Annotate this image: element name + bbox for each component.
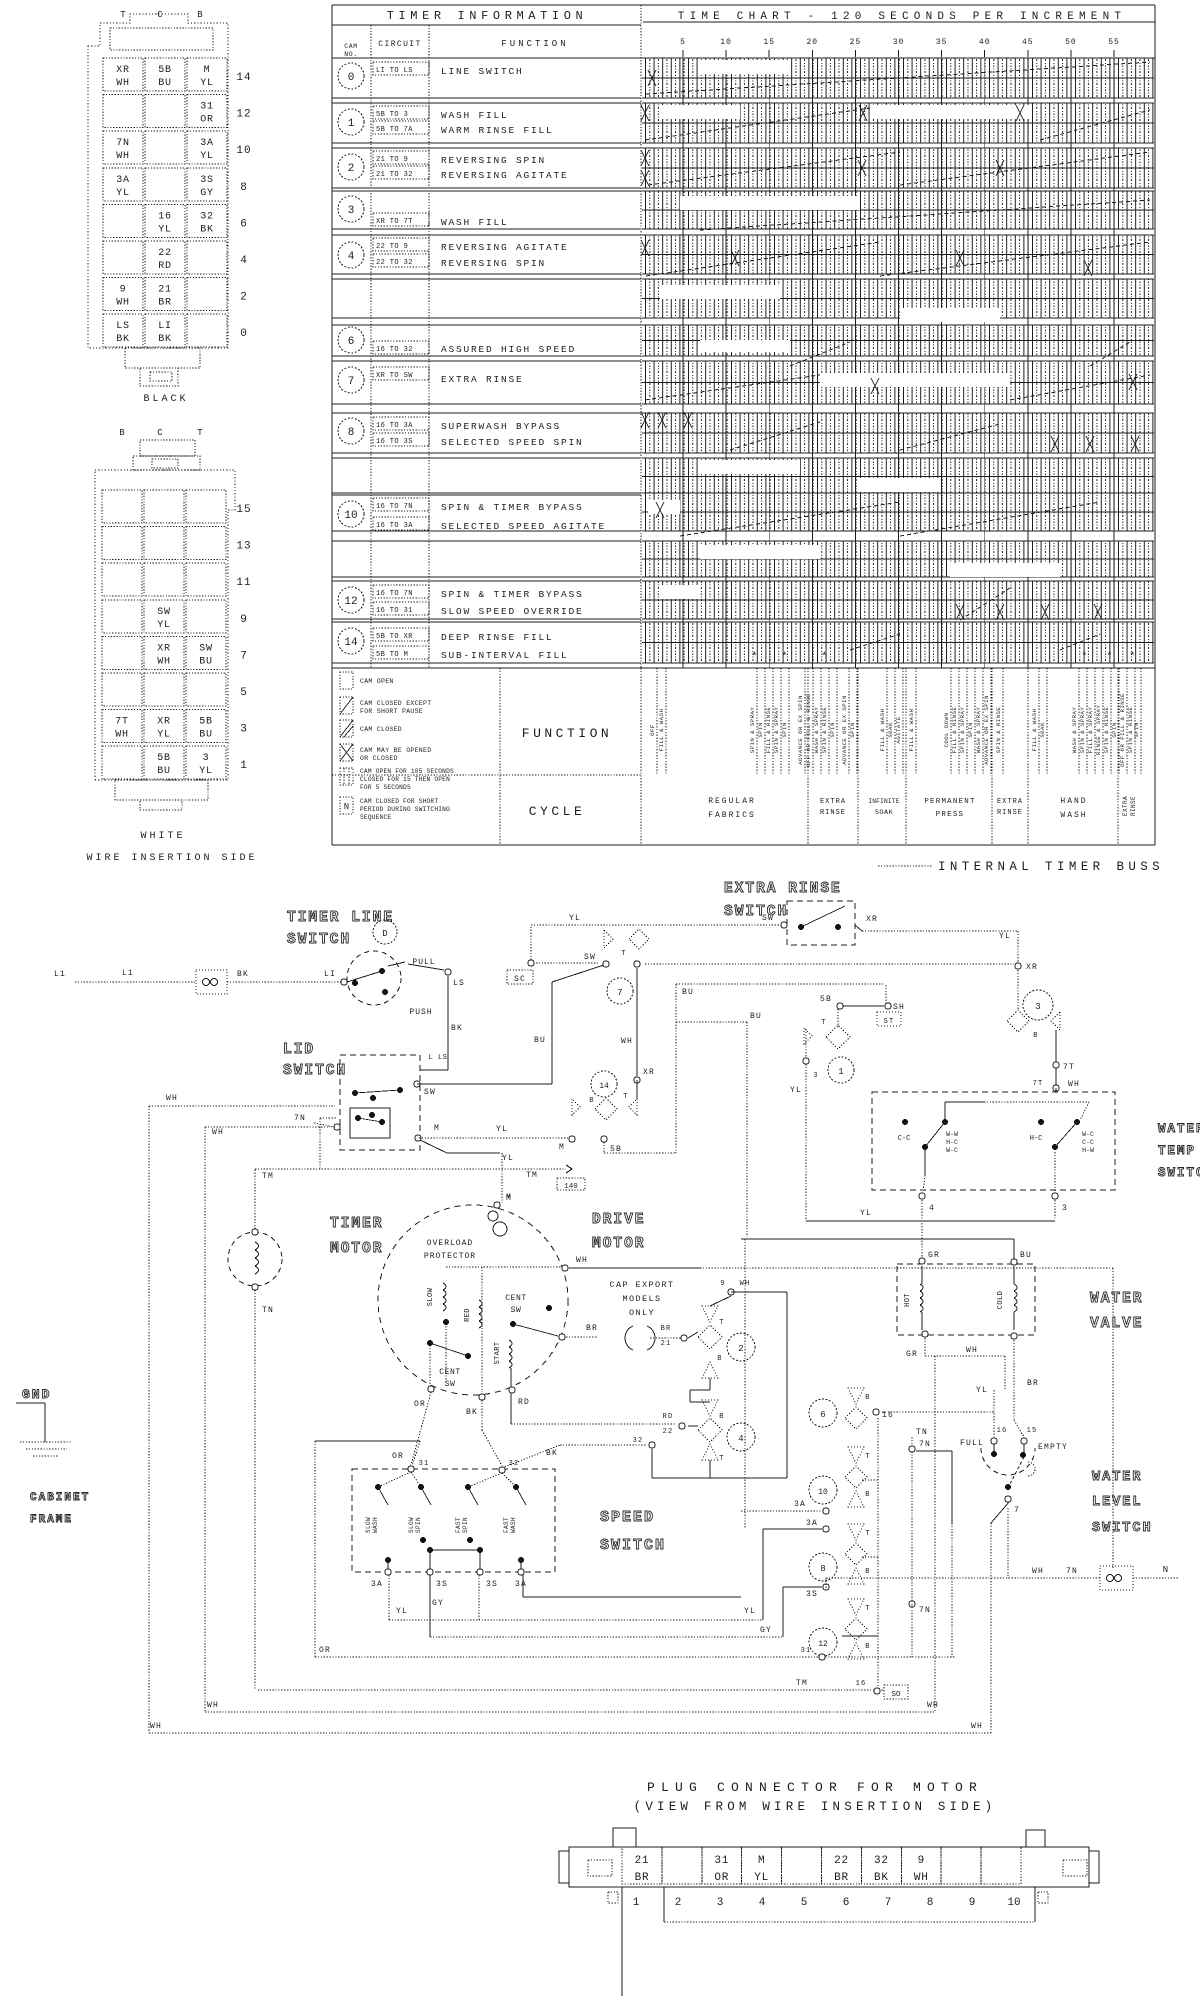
svg-text:FILL & WASH: FILL & WASH — [658, 709, 665, 752]
svg-text:T: T — [197, 428, 203, 438]
svg-text:XR TO 7T: XR TO 7T — [376, 218, 413, 226]
svg-text:SPIN & TIMER BYPASS: SPIN & TIMER BYPASS — [441, 589, 584, 600]
svg-text:BU: BU — [199, 730, 213, 741]
svg-text:M: M — [506, 1194, 512, 1203]
svg-text:W-C: W-C — [1082, 1131, 1094, 1138]
svg-text:140: 140 — [564, 1183, 578, 1191]
svg-text:15: 15 — [236, 504, 251, 516]
svg-text:T: T — [621, 950, 626, 958]
svg-text:6: 6 — [820, 1410, 825, 1420]
svg-text:GY: GY — [432, 1599, 444, 1608]
svg-text:31: 31 — [714, 1855, 729, 1867]
svg-text:25: 25 — [850, 38, 862, 47]
svg-text:3A: 3A — [806, 1519, 818, 1528]
svg-text:7: 7 — [348, 376, 355, 388]
svg-text:1: 1 — [240, 760, 248, 772]
svg-text:5B TO 3: 5B TO 3 — [376, 111, 408, 119]
svg-text:22 TO 9: 22 TO 9 — [376, 243, 408, 251]
svg-text:OVERLOAD: OVERLOAD — [427, 1239, 473, 1248]
svg-text:RED: RED — [464, 1308, 472, 1322]
svg-text:5B: 5B — [199, 717, 213, 728]
svg-text:SWITCH: SWITCH — [1092, 1521, 1153, 1536]
svg-text:D: D — [382, 929, 387, 939]
svg-text:SW: SW — [157, 607, 171, 618]
svg-text:16: 16 — [882, 1411, 894, 1420]
svg-text:CAM CLOSED EXCEPT: CAM CLOSED EXCEPT — [360, 700, 431, 707]
svg-text:TIMER INFORMATION: TIMER INFORMATION — [387, 9, 588, 23]
svg-text:7N: 7N — [1066, 1567, 1078, 1576]
svg-text:B: B — [865, 1643, 870, 1651]
svg-text:SPIN: SPIN — [462, 1517, 469, 1533]
svg-text:SPIN & RINSE: SPIN & RINSE — [821, 707, 828, 754]
svg-text:WASH FILL: WASH FILL — [441, 217, 509, 228]
svg-text:SPIN & SPRAY: SPIN & SPRAY — [749, 707, 756, 754]
svg-text:PERMANENT: PERMANENT — [924, 798, 975, 806]
svg-text:RINSE: RINSE — [820, 809, 846, 817]
svg-text:PRESS: PRESS — [936, 811, 965, 819]
svg-text:B: B — [1033, 1032, 1038, 1040]
svg-text:OFF OR FILL & RINSE: OFF OR FILL & RINSE — [1119, 693, 1126, 767]
svg-text:5B TO M: 5B TO M — [376, 651, 408, 659]
svg-text:31: 31 — [200, 102, 214, 113]
svg-text:GR: GR — [928, 1251, 940, 1260]
svg-text:SOAK: SOAK — [875, 809, 894, 817]
svg-text:FAST: FAST — [455, 1517, 462, 1533]
svg-text:6: 6 — [240, 218, 248, 230]
svg-text:BU: BU — [682, 988, 694, 997]
svg-text:14: 14 — [236, 72, 251, 84]
svg-text:5B TO 7A: 5B TO 7A — [376, 126, 413, 134]
svg-text:10: 10 — [344, 510, 357, 522]
svg-text:EXTRA RINSE: EXTRA RINSE — [724, 881, 842, 897]
svg-text:XR: XR — [157, 717, 171, 728]
svg-text:16 TO 7N: 16 TO 7N — [376, 590, 413, 598]
svg-text:8: 8 — [820, 1564, 825, 1574]
svg-text:T: T — [821, 1019, 826, 1027]
svg-text:16 TO 3A: 16 TO 3A — [376, 422, 413, 430]
svg-text:WH: WH — [740, 1280, 751, 1288]
svg-text:YL: YL — [790, 1086, 802, 1095]
svg-text:16 TO 31: 16 TO 31 — [376, 607, 413, 615]
svg-text:3A: 3A — [116, 175, 130, 186]
svg-text:5: 5 — [240, 687, 248, 699]
svg-text:SLOW SPEED OVERRIDE: SLOW SPEED OVERRIDE — [441, 606, 584, 617]
svg-text:SELECTED SPEED SPIN: SELECTED SPEED SPIN — [441, 437, 584, 448]
svg-text:B: B — [719, 1413, 724, 1421]
svg-text:TM: TM — [262, 1172, 274, 1181]
svg-text:YL: YL — [116, 188, 130, 199]
svg-text:WASH FILL: WASH FILL — [441, 110, 509, 121]
svg-text:CAM OPEN: CAM OPEN — [360, 678, 394, 685]
svg-text:WIRE INSERTION SIDE: WIRE INSERTION SIDE — [86, 853, 257, 864]
svg-text:3S: 3S — [200, 175, 214, 186]
svg-text:7: 7 — [1014, 1506, 1020, 1515]
svg-text:YL: YL — [157, 730, 171, 741]
svg-text:30: 30 — [893, 38, 905, 47]
svg-text:40: 40 — [979, 38, 991, 47]
svg-text:CENT: CENT — [505, 1294, 527, 1303]
svg-text:T: T — [865, 1605, 870, 1613]
svg-text:2: 2 — [240, 292, 248, 304]
svg-text:0: 0 — [240, 328, 248, 340]
svg-text:21 TO 9: 21 TO 9 — [376, 156, 408, 164]
svg-text:45: 45 — [1022, 38, 1034, 47]
svg-text:(VIEW FROM WIRE INSERTION SIDE: (VIEW FROM WIRE INSERTION SIDE) — [634, 1800, 997, 1814]
svg-text:SOAK: SOAK — [887, 722, 894, 738]
svg-text:SLOW: SLOW — [427, 1287, 435, 1306]
svg-text:BU: BU — [199, 656, 213, 667]
svg-text:SPIN: SPIN — [967, 722, 974, 738]
svg-text:SW: SW — [424, 1088, 436, 1097]
svg-text:SOAK: SOAK — [1039, 722, 1046, 738]
svg-text:REGULAR: REGULAR — [708, 797, 756, 806]
svg-text:7N: 7N — [919, 1440, 931, 1449]
svg-text:RINSE: RINSE — [1130, 796, 1137, 816]
svg-text:WH: WH — [207, 1701, 219, 1710]
svg-text:BK: BK — [116, 334, 130, 345]
svg-text:WH: WH — [116, 298, 130, 309]
svg-text:TM: TM — [526, 1171, 538, 1180]
svg-text:SPIN & RINSE: SPIN & RINSE — [1103, 707, 1110, 754]
svg-text:3S: 3S — [436, 1580, 448, 1589]
svg-text:B: B — [865, 1568, 870, 1576]
svg-text:CAM: CAM — [344, 43, 358, 50]
svg-text:YL: YL — [744, 1607, 756, 1616]
svg-text:LI: LI — [324, 970, 336, 979]
svg-text:EXTRA RINSE: EXTRA RINSE — [441, 374, 524, 385]
svg-text:PROTECTOR: PROTECTOR — [424, 1252, 476, 1261]
svg-text:SPIN: SPIN — [849, 722, 856, 738]
svg-text:4: 4 — [929, 1204, 935, 1213]
svg-text:WASH & SPRAY: WASH & SPRAY — [1071, 707, 1078, 754]
svg-text:YL: YL — [754, 1872, 769, 1884]
svg-text:YL: YL — [200, 78, 214, 89]
svg-text:LEVEL: LEVEL — [1092, 1495, 1143, 1510]
svg-text:21: 21 — [635, 1855, 650, 1867]
svg-text:SW: SW — [199, 643, 213, 654]
svg-text:FOR SHORT PAUSE: FOR SHORT PAUSE — [360, 708, 423, 715]
svg-text:SPEED: SPEED — [600, 1509, 655, 1526]
svg-text:SPIN: SPIN — [1133, 722, 1140, 738]
svg-text:T: T — [865, 1453, 870, 1461]
svg-text:FRAME: FRAME — [30, 1514, 73, 1526]
svg-text:21 TO 32: 21 TO 32 — [376, 171, 413, 179]
svg-text:SPIN & RINSE: SPIN & RINSE — [995, 707, 1002, 754]
svg-text:T: T — [865, 1530, 870, 1538]
svg-text:YL: YL — [999, 932, 1011, 941]
svg-text:GND: GND — [22, 1387, 51, 1402]
svg-text:SW: SW — [511, 1306, 522, 1315]
svg-text:BU: BU — [534, 1036, 546, 1045]
svg-text:5B: 5B — [157, 753, 171, 764]
svg-text:SLOW: SLOW — [408, 1517, 415, 1533]
svg-text:INTERNAL TIMER BUSS: INTERNAL TIMER BUSS — [938, 860, 1164, 874]
svg-text:T: T — [719, 1455, 724, 1463]
svg-text:9: 9 — [720, 1280, 725, 1288]
svg-text:*: * — [751, 651, 758, 663]
svg-text:SWITCH: SWITCH — [287, 932, 351, 948]
svg-text:3: 3 — [348, 205, 355, 217]
svg-text:3: 3 — [1062, 1204, 1068, 1213]
svg-text:BK: BK — [874, 1872, 889, 1884]
svg-text:COLD: COLD — [997, 1291, 1005, 1309]
svg-text:7N: 7N — [294, 1114, 306, 1123]
svg-text:22: 22 — [158, 248, 172, 259]
svg-text:SPIN & SPRAY: SPIN & SPRAY — [1079, 707, 1086, 754]
svg-text:WHITE: WHITE — [140, 831, 185, 842]
svg-text:COOL DOWN: COOL DOWN — [943, 712, 950, 747]
svg-text:10: 10 — [1007, 1897, 1020, 1909]
svg-text:TIMER: TIMER — [330, 1216, 384, 1232]
svg-text:WASH: WASH — [372, 1517, 379, 1533]
svg-text:LS: LS — [453, 979, 465, 988]
svg-text:9: 9 — [120, 285, 127, 296]
svg-text:HOT: HOT — [904, 1293, 912, 1307]
svg-text:FOR 5 SECONDS: FOR 5 SECONDS — [360, 784, 411, 791]
svg-text:YL: YL — [496, 1125, 508, 1134]
svg-text:7N: 7N — [116, 138, 130, 149]
svg-text:ASSURED HIGH SPEED: ASSURED HIGH SPEED — [441, 344, 576, 355]
svg-text:OR: OR — [392, 1452, 404, 1461]
svg-text:BLACK: BLACK — [143, 394, 188, 405]
svg-text:TM: TM — [796, 1679, 808, 1688]
svg-text:YL: YL — [502, 1154, 514, 1163]
svg-text:32: 32 — [874, 1855, 889, 1867]
svg-text:H-C: H-C — [946, 1139, 958, 1146]
svg-text:OR: OR — [714, 1872, 729, 1884]
svg-text:OFF OR FILL & RINSE: OFF OR FILL & RINSE — [805, 693, 812, 767]
svg-text:BR: BR — [158, 298, 172, 309]
svg-text:B: B — [865, 1394, 870, 1402]
svg-text:5B: 5B — [158, 65, 172, 76]
svg-text:EXTRA: EXTRA — [1122, 796, 1129, 816]
svg-text:TN: TN — [262, 1306, 274, 1315]
svg-text:WASH & SPRAY: WASH & SPRAY — [813, 707, 820, 754]
svg-text:ONLY: ONLY — [629, 1308, 655, 1318]
svg-text:SUB-INTERVAL FILL: SUB-INTERVAL FILL — [441, 650, 569, 661]
svg-text:BR: BR — [661, 1325, 672, 1333]
svg-text:WH: WH — [1032, 1567, 1044, 1576]
svg-text:CAM MAY BE OPENED: CAM MAY BE OPENED — [360, 747, 431, 754]
svg-text:6: 6 — [348, 336, 355, 348]
svg-text:WASH & SPRAY: WASH & SPRAY — [975, 707, 982, 754]
svg-text:55: 55 — [1108, 38, 1120, 47]
svg-text:ADVANCE OR EX SPIN: ADVANCE OR EX SPIN — [983, 695, 990, 765]
svg-text:MOTOR: MOTOR — [330, 1241, 384, 1257]
svg-text:FILL & SPRAY: FILL & SPRAY — [1087, 707, 1094, 754]
svg-text:3: 3 — [240, 724, 248, 736]
svg-text:FILL & RINSE: FILL & RINSE — [951, 707, 958, 754]
svg-text:7T: 7T — [1063, 1063, 1075, 1072]
svg-text:SPIN: SPIN — [829, 722, 836, 738]
svg-text:8: 8 — [927, 1897, 934, 1909]
svg-text:MODELS: MODELS — [622, 1294, 661, 1304]
svg-text:YL: YL — [396, 1607, 408, 1616]
svg-text:SUPERWASH BYPASS: SUPERWASH BYPASS — [441, 421, 561, 432]
svg-text:BK: BK — [158, 334, 172, 345]
svg-text:FUNCTION: FUNCTION — [522, 726, 612, 741]
svg-text:INFINITE: INFINITE — [868, 798, 899, 805]
svg-text:BK: BK — [466, 1408, 478, 1417]
svg-text:WH: WH — [157, 656, 171, 667]
svg-text:BK: BK — [237, 970, 249, 979]
svg-text:PUSH: PUSH — [409, 1008, 432, 1017]
svg-text:WASH: WASH — [510, 1517, 517, 1533]
svg-text:10: 10 — [720, 38, 732, 47]
svg-text:AGITATE: AGITATE — [895, 716, 902, 743]
svg-text:10: 10 — [236, 145, 251, 157]
svg-text:SH: SH — [893, 1003, 905, 1012]
svg-text:31: 31 — [419, 1460, 430, 1468]
svg-text:PERIOD DURING SWITCHING: PERIOD DURING SWITCHING — [360, 806, 450, 813]
svg-text:BK: BK — [546, 1449, 558, 1458]
svg-text:FABRICS: FABRICS — [708, 811, 756, 820]
svg-text:B: B — [119, 428, 125, 438]
svg-text:B: B — [589, 1097, 594, 1105]
svg-text:3A: 3A — [794, 1500, 806, 1509]
svg-text:4: 4 — [348, 251, 355, 263]
svg-text:N: N — [344, 802, 349, 812]
svg-text:WH: WH — [927, 1701, 939, 1710]
svg-text:20: 20 — [806, 38, 818, 47]
svg-text:M: M — [559, 1143, 565, 1152]
svg-text:BU: BU — [158, 78, 172, 89]
svg-text:REVERSING AGITATE: REVERSING AGITATE — [441, 242, 569, 253]
svg-text:4: 4 — [240, 255, 248, 267]
svg-text:3S: 3S — [486, 1580, 498, 1589]
svg-text:REVERSING SPIN: REVERSING SPIN — [441, 155, 546, 166]
svg-text:CLOSED FOR 15 THEN OPEN: CLOSED FOR 15 THEN OPEN — [360, 776, 450, 783]
svg-text:7: 7 — [885, 1897, 892, 1909]
svg-text:1: 1 — [838, 1067, 843, 1077]
svg-text:8: 8 — [348, 427, 355, 439]
svg-text:14: 14 — [599, 1082, 609, 1091]
svg-text:RINSE & SPRAY: RINSE & SPRAY — [1095, 705, 1102, 756]
svg-text:T: T — [623, 1093, 628, 1101]
svg-text:5: 5 — [801, 1897, 808, 1909]
svg-text:REVERSING SPIN: REVERSING SPIN — [441, 258, 546, 269]
svg-text:WASH: WASH — [1060, 811, 1087, 820]
svg-text:LID: LID — [283, 1042, 315, 1058]
svg-text:3A: 3A — [515, 1580, 527, 1589]
svg-text:START: START — [494, 1341, 502, 1364]
svg-text:6: 6 — [843, 1897, 850, 1909]
svg-text:LI TO LS: LI TO LS — [376, 67, 413, 75]
svg-text:M: M — [434, 1124, 440, 1133]
svg-text:1: 1 — [633, 1897, 640, 1909]
svg-text:21: 21 — [661, 1340, 672, 1348]
svg-text:WATER: WATER — [1158, 1122, 1200, 1136]
svg-text:16 TO 3A: 16 TO 3A — [376, 522, 413, 530]
svg-text:L1: L1 — [54, 970, 66, 979]
svg-text:TIME CHART - 120 SECONDS PER I: TIME CHART - 120 SECONDS PER INCREMENT — [678, 11, 1126, 23]
svg-text:YL: YL — [200, 151, 214, 162]
svg-text:OFF: OFF — [649, 724, 656, 736]
svg-text:T: T — [120, 10, 126, 20]
svg-text:ADVANCE OR EX SPIN: ADVANCE OR EX SPIN — [797, 695, 804, 765]
svg-text:WH: WH — [966, 1346, 978, 1355]
svg-text:12: 12 — [344, 596, 357, 608]
svg-text:DEEP RINSE FILL: DEEP RINSE FILL — [441, 632, 554, 643]
svg-text:FILL & WASH: FILL & WASH — [1031, 709, 1038, 752]
svg-text:XR: XR — [157, 643, 171, 654]
svg-text:22: 22 — [834, 1855, 849, 1867]
svg-text:SPIN & SPRAY: SPIN & SPRAY — [773, 707, 780, 754]
svg-text:SPIN: SPIN — [757, 722, 764, 738]
svg-text:MOTOR: MOTOR — [592, 1236, 646, 1252]
svg-text:3: 3 — [1035, 1002, 1040, 1012]
svg-text:WH: WH — [115, 730, 129, 741]
svg-text:ADVANCE OR EX SPIN: ADVANCE OR EX SPIN — [841, 695, 848, 765]
svg-text:16 TO 3S: 16 TO 3S — [376, 438, 413, 446]
svg-text:GR: GR — [906, 1350, 918, 1359]
svg-text:LS: LS — [116, 321, 130, 332]
svg-text:3A: 3A — [371, 1580, 383, 1589]
svg-text:PLUG CONNECTOR FOR MOTOR: PLUG CONNECTOR FOR MOTOR — [647, 1780, 983, 1795]
svg-text:22 TO 32: 22 TO 32 — [376, 259, 413, 267]
svg-text:H-C: H-C — [1030, 1135, 1043, 1143]
svg-text:SO: SO — [891, 1691, 901, 1699]
svg-text:SW: SW — [584, 953, 596, 962]
svg-text:BU: BU — [750, 1012, 762, 1021]
svg-text:0: 0 — [348, 72, 355, 84]
svg-text:FILL & RINSE: FILL & RINSE — [765, 707, 772, 754]
svg-text:BR: BR — [586, 1324, 598, 1333]
svg-text:3: 3 — [813, 1072, 818, 1080]
svg-text:WH: WH — [621, 1037, 633, 1046]
svg-text:7: 7 — [617, 988, 622, 998]
svg-text:CABINET: CABINET — [30, 1492, 90, 1504]
svg-text:4: 4 — [738, 1434, 743, 1444]
svg-text:FILL & WASH: FILL & WASH — [879, 709, 886, 752]
svg-text:LI: LI — [158, 321, 172, 332]
svg-text:H-W: H-W — [1082, 1147, 1094, 1154]
svg-text:ST: ST — [884, 1018, 895, 1026]
svg-text:REVERSING AGITATE: REVERSING AGITATE — [441, 170, 569, 181]
svg-text:CENT: CENT — [439, 1368, 461, 1377]
svg-text:W-C: W-C — [946, 1147, 958, 1154]
svg-text:GY: GY — [760, 1626, 772, 1635]
svg-text:WH: WH — [116, 151, 130, 162]
svg-text:12: 12 — [818, 1640, 828, 1649]
svg-text:*: * — [1081, 651, 1088, 663]
svg-text:WH: WH — [914, 1872, 929, 1884]
svg-text:FULL: FULL — [960, 1439, 984, 1448]
svg-text:M: M — [204, 65, 211, 76]
svg-text:4: 4 — [759, 1897, 766, 1909]
svg-text:12: 12 — [236, 109, 251, 121]
svg-text:10: 10 — [818, 1488, 828, 1497]
svg-text:2: 2 — [348, 163, 355, 175]
svg-text:*: * — [1129, 651, 1136, 663]
svg-text:16: 16 — [158, 211, 172, 222]
svg-text:16 TO 7N: 16 TO 7N — [376, 503, 413, 511]
svg-text:C-C: C-C — [1082, 1139, 1094, 1146]
svg-text:C: C — [157, 10, 163, 20]
svg-text:2: 2 — [738, 1344, 743, 1354]
svg-text:WH: WH — [576, 1256, 588, 1265]
svg-text:SLOW: SLOW — [365, 1517, 372, 1533]
svg-text:L LS: L LS — [429, 1054, 448, 1062]
svg-text:FILL & WASH: FILL & WASH — [908, 709, 915, 752]
svg-text:FUNCTION: FUNCTION — [501, 39, 568, 49]
svg-text:SW: SW — [762, 914, 774, 923]
svg-text:*: * — [1106, 651, 1113, 663]
svg-text:*: * — [821, 651, 828, 663]
svg-text:XR TO SW: XR TO SW — [376, 372, 413, 380]
svg-text:B: B — [865, 1491, 870, 1499]
svg-text:W-W: W-W — [946, 1131, 958, 1138]
